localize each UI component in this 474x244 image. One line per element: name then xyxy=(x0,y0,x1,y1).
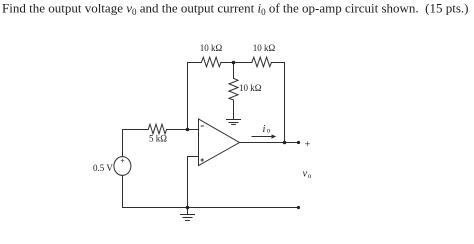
svg-text:o: o xyxy=(308,172,312,180)
svg-text:0.5 V: 0.5 V xyxy=(93,163,113,173)
svg-text:Find the output voltage v0 and: Find the output voltage v0 and the outpu… xyxy=(2,1,468,17)
svg-text:o: o xyxy=(267,126,271,134)
svg-text:10 kΩ: 10 kΩ xyxy=(239,83,262,93)
svg-text:10 kΩ: 10 kΩ xyxy=(253,43,276,53)
svg-text:+: + xyxy=(305,140,311,151)
svg-text:5 kΩ: 5 kΩ xyxy=(149,133,167,143)
svg-text:10 kΩ: 10 kΩ xyxy=(200,43,223,53)
svg-text:v: v xyxy=(303,168,308,179)
svg-text:i: i xyxy=(263,124,266,135)
